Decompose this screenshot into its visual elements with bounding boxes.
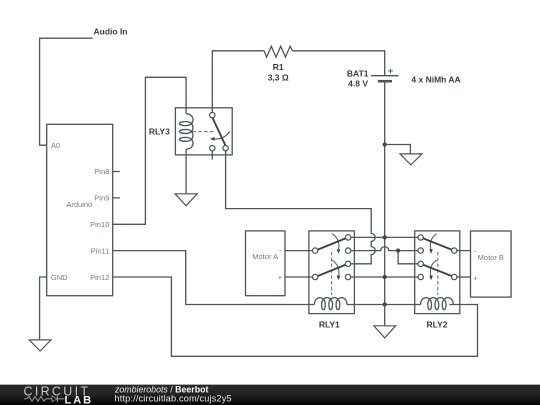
wire rail to ground <box>384 305 386 326</box>
svg-text:4.8 V: 4.8 V <box>348 79 368 89</box>
RLY2 dashed link <box>437 252 439 295</box>
svg-text:BAT1: BAT1 <box>347 69 369 79</box>
RLY1 arrow 2 <box>332 260 339 276</box>
RLY3 coil <box>180 114 194 149</box>
ground symbol at rail <box>374 326 396 338</box>
wire R1 to BAT1 <box>293 51 385 75</box>
wire RLY3 coil to ground <box>185 149 187 194</box>
RLY1 box <box>309 231 355 314</box>
node battery/ground junction <box>383 142 387 146</box>
relay RLY1 <box>309 231 355 314</box>
motor Motor A <box>246 231 286 296</box>
wire Pin12 to RLY2 coil <box>113 277 478 356</box>
ground symbol at battery <box>400 154 422 165</box>
wire Motor A to RLY1 common2 <box>285 276 313 278</box>
RLY1 blade 1 <box>318 238 346 249</box>
wire RLY3 top pin to R1 <box>212 51 264 113</box>
svg-text:RLY3: RLY3 <box>149 127 170 137</box>
svg-text:Motor A: Motor A <box>252 252 278 261</box>
motor Motor B <box>471 231 512 297</box>
svg-text:Pin8: Pin8 <box>94 167 109 176</box>
RLY2 box <box>415 231 460 314</box>
resistor R1 <box>264 46 292 57</box>
wire Audio In to A0 <box>40 38 93 145</box>
svg-text:Pin9: Pin9 <box>94 194 109 203</box>
node row1/rail <box>383 235 387 239</box>
wire Pin8 stub <box>113 171 120 173</box>
RLY2 pin circles <box>418 235 423 240</box>
svg-text:Motor B: Motor B <box>478 253 504 262</box>
wire RLY3 common to RLY1 row3 (with hops) <box>226 151 376 264</box>
wire RLY2 to Motor B row4 <box>457 276 471 278</box>
wire battery negative rail <box>384 83 386 305</box>
wire Motor A to RLY1 common1 <box>285 250 313 252</box>
ground symbol at RLY3 <box>175 194 197 206</box>
svg-text:LAB: LAB <box>65 394 94 405</box>
RLY1 blade 2 <box>318 265 346 276</box>
wire Pin11 to RLY1 coil <box>113 251 315 305</box>
relay RLY2 <box>415 231 460 314</box>
Arduino box <box>47 124 113 295</box>
logo diode <box>52 396 57 402</box>
svg-text:+: + <box>388 66 394 77</box>
RLY1 arrow 1 <box>332 234 339 250</box>
wire row2 RLY1 to RLY2 (hop over rail) <box>351 247 418 251</box>
wire Pin9 stub <box>113 197 120 199</box>
RLY2 blade 2 <box>423 265 451 276</box>
svg-text:http://circuitlab.com/cujs2y5: http://circuitlab.com/cujs2y5 <box>115 394 232 404</box>
node coil row/rail <box>383 302 387 306</box>
wire to battery ground <box>385 145 411 154</box>
RLY3 box <box>175 108 232 155</box>
RLY2 arrow 1 <box>430 234 436 250</box>
RLY2 blade 1 <box>423 238 451 249</box>
RLY1 pin circles <box>313 248 318 253</box>
relay RLY3 <box>175 108 232 160</box>
svg-text:RLY2: RLY2 <box>427 319 448 329</box>
svg-text:3,3 Ω: 3,3 Ω <box>268 73 289 83</box>
wire RLY2 to Motor B row2 <box>457 250 471 252</box>
svg-text:Audio In: Audio In <box>94 26 128 36</box>
RLY1 dashed link <box>331 252 333 295</box>
logo resistor squiggle <box>24 396 52 401</box>
wire jumper to RLY2 row3 <box>398 251 418 264</box>
svg-text:GND: GND <box>51 273 68 282</box>
battery BAT1 <box>371 76 399 82</box>
wire row4 RLY1 to RLY2 <box>351 276 418 278</box>
RLY3 NC stub <box>211 151 213 160</box>
RLY3 pin circles <box>210 113 215 118</box>
svg-text:Arduino: Arduino <box>66 200 92 209</box>
RLY3 dashed link <box>193 131 215 133</box>
svg-text:Pin11: Pin11 <box>91 246 110 255</box>
ground symbol at GND <box>29 340 51 351</box>
wire row1 RLY1 to RLY2 <box>351 236 418 238</box>
node row4/rail <box>383 275 387 279</box>
svg-text:+: + <box>278 275 282 282</box>
RLY1 coil <box>314 298 347 310</box>
RLY2 coil <box>421 298 454 310</box>
svg-text:4 x NiMh AA: 4 x NiMh AA <box>411 75 460 85</box>
wire GND to ground <box>40 277 47 340</box>
svg-text:A0: A0 <box>51 141 60 150</box>
svg-text:Pin12: Pin12 <box>90 273 109 282</box>
RLY3 blade <box>213 118 226 145</box>
RLY3 arrow <box>215 131 230 139</box>
wire Pin10 to RLY3 coil <box>113 77 186 224</box>
svg-text:+: + <box>473 275 477 282</box>
RLY2 arrow 2 <box>430 260 436 276</box>
node row2/jumper <box>396 249 400 253</box>
svg-text:RLY1: RLY1 <box>319 319 340 329</box>
svg-text:R1: R1 <box>273 62 284 72</box>
wire coil row between relays <box>347 304 421 306</box>
svg-text:Pin10: Pin10 <box>90 220 109 229</box>
